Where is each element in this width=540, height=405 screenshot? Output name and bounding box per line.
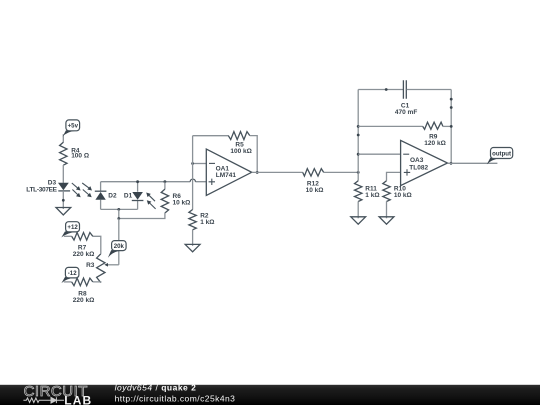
wire feedback top left segment: [193, 135, 229, 137]
svg-text:220 kΩ: 220 kΩ: [73, 297, 94, 304]
node R9 left junction: [357, 125, 360, 128]
node OA3 output junction: [450, 162, 453, 165]
wire R9 row left: [358, 125, 423, 127]
node right vertical a: [450, 98, 453, 101]
svg-text:+5v: +5v: [68, 123, 79, 130]
resistor R9: [423, 122, 446, 147]
wire R11 top lead: [357, 172, 359, 180]
svg-text:10 kΩ: 10 kΩ: [173, 200, 191, 207]
wire +12 to R7: [64, 235, 72, 237]
wire right vertical feedback: [450, 90, 452, 164]
wire R9 row right: [443, 125, 451, 127]
node right vertical b: [450, 106, 453, 109]
resistor R11: [355, 181, 380, 202]
node OA1 minus junction: [191, 162, 194, 165]
op-amp OA1 LM741: [206, 149, 251, 195]
svg-text:10 kΩ: 10 kΩ: [306, 187, 324, 194]
svg-text:D1: D1: [124, 192, 133, 199]
resistor R6: [161, 189, 190, 213]
D3 emission arrow 1: [72, 183, 81, 191]
node box bottom junction: [117, 208, 120, 211]
D2 reception arrow 2: [83, 190, 92, 198]
wire wiper column down: [118, 219, 120, 265]
svg-text:D3: D3: [48, 179, 57, 186]
ground below R2: [185, 244, 200, 251]
wire D3 to ground: [62, 191, 64, 209]
ground below R11: [351, 217, 366, 224]
wire feedback left vertical: [192, 136, 194, 164]
resistor R8: [72, 278, 95, 304]
footer bar: [0, 385, 540, 405]
potentiometer R3: [86, 254, 105, 283]
svg-text:TL082: TL082: [409, 165, 428, 172]
wire feedback top right segment and down to output: [250, 136, 257, 173]
CircuitLab logo schematic line: [23, 397, 64, 403]
svg-text:10 kΩ: 10 kΩ: [394, 192, 412, 199]
resistor R5: [228, 132, 252, 155]
svg-text:D2: D2: [108, 192, 117, 199]
power flag -12: [61, 267, 79, 283]
node wire segment left vertical: [357, 134, 360, 137]
wire OA3 plus input to R10: [387, 172, 401, 180]
D2 reception arrow 1: [82, 183, 92, 191]
wire OA1 output to R12: [252, 171, 303, 173]
wire -12 to R8: [64, 281, 72, 283]
wire R6 bottom jog to center column: [119, 213, 165, 219]
op-amp OA3 TL082: [401, 140, 448, 185]
node R9 right junction: [450, 125, 453, 128]
node OA1 output junction: [256, 171, 259, 174]
svg-text:-12: -12: [68, 270, 77, 277]
output flag: [487, 148, 513, 165]
svg-text:100 Ω: 100 Ω: [71, 152, 89, 159]
svg-text:470 mF: 470 mF: [395, 109, 417, 116]
label flag 20k (R3 value): [108, 241, 126, 258]
ground below D3: [56, 208, 71, 215]
wire R4 to D3: [62, 165, 64, 183]
svg-text:120 kΩ: 120 kΩ: [424, 140, 445, 147]
svg-text:100 kΩ: 100 kΩ: [230, 148, 251, 155]
D1 reception arrow 1: [146, 193, 155, 202]
svg-text:1 kΩ: 1 kΩ: [200, 219, 214, 226]
wire box bottom to wiper column: [118, 209, 120, 218]
photodiode D1: [124, 192, 143, 201]
wire R7 to R3 top: [93, 236, 101, 254]
resistor R2: [189, 210, 215, 230]
svg-text:output: output: [492, 150, 511, 157]
resistor R12: [303, 169, 324, 195]
wire top feedback row right: [407, 89, 452, 91]
LED D3 LTL-307EE: [26, 179, 70, 193]
wire minus node down to R2: [192, 164, 194, 210]
wire box bottom edge: [101, 208, 138, 210]
wire D1 column: [137, 182, 139, 210]
wire +5v to R4: [62, 134, 64, 142]
power flag +5v: [63, 120, 80, 137]
wire box left edge: [100, 182, 102, 210]
wire OA3 minus input: [358, 153, 400, 155]
node R6 top wire: [164, 180, 167, 183]
resistor R7: [72, 233, 95, 258]
svg-text:1 kΩ: 1 kΩ: [365, 192, 379, 199]
wire hop over R2 branch: [190, 179, 195, 182]
wire R10 to ground: [386, 201, 388, 218]
resistor R10: [383, 181, 412, 202]
svg-text:R3: R3: [86, 262, 95, 269]
wire wiper horizontal: [108, 264, 119, 266]
svg-text:loydv654 / quake 2: loydv654 / quake 2: [115, 383, 197, 393]
ground below R10: [379, 217, 394, 224]
wire top row photodiode box to OA1 + input: [101, 181, 207, 183]
svg-text:LTL-307EE: LTL-307EE: [26, 186, 57, 193]
wire top feedback row left: [358, 89, 403, 91]
resistor R4: [60, 142, 89, 165]
node wiper column junction: [117, 217, 120, 220]
wire R11 to ground: [357, 201, 359, 218]
node D1 top wire: [136, 180, 139, 183]
wire OA1 minus input: [193, 163, 207, 165]
node C1 left: [385, 88, 388, 91]
svg-text:LAB: LAB: [64, 393, 92, 405]
svg-text:220 kΩ: 220 kΩ: [73, 251, 94, 258]
wire R8 to R3 bottom: [93, 281, 101, 284]
wire R6 top lead: [164, 182, 166, 190]
node R12/R11 junction: [357, 171, 360, 174]
node OA3 minus junction: [357, 153, 360, 156]
power flag +12: [61, 222, 79, 238]
photodiode D2: [95, 191, 117, 200]
capacitor C1: [395, 80, 417, 116]
potentiometer R3 wiper arrow: [104, 263, 108, 267]
wire R12 to OA3 input node: [324, 171, 359, 173]
svg-text:+12: +12: [67, 224, 78, 231]
D1 reception arrow 2: [147, 200, 156, 209]
svg-text:LM741: LM741: [216, 172, 237, 179]
D3 emission arrow 2: [72, 190, 80, 198]
svg-text:OA3: OA3: [410, 157, 424, 164]
wire OA3 output: [448, 162, 498, 164]
svg-text:20k: 20k: [114, 243, 125, 250]
node D3-ground: [62, 199, 65, 202]
svg-text:http://circuitlab.com/c25k4n3: http://circuitlab.com/c25k4n3: [115, 393, 236, 403]
wire R2 to ground: [192, 230, 194, 246]
wire left vertical of OA3 feedback: [357, 90, 359, 173]
